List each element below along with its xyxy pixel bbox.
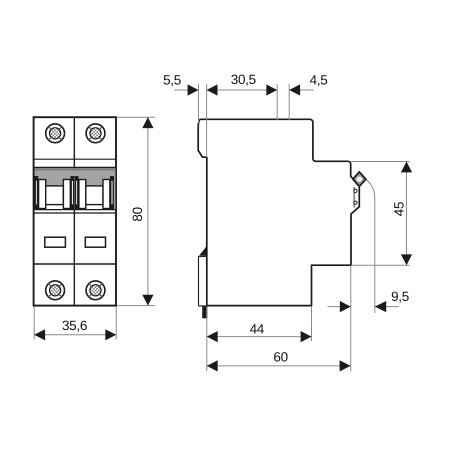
DIN rail clip foot — [202, 307, 207, 319]
dimension 35,6 extension left — [33, 307, 35, 340]
pole2 narrow bar right — [111, 177, 113, 209]
screw terminal bottom-left — [46, 281, 65, 300]
svg-text:45: 45 — [391, 202, 406, 216]
pole1 wide bar left — [39, 180, 46, 209]
narrow bar end caps — [35, 176, 114, 210]
pole1 recess lower white zone — [39, 204, 70, 210]
dimension 44/60 extension left — [206, 306, 208, 371]
toggle recess shadow top — [35, 168, 116, 170]
dimension 60 extension right (also 9,5 left) — [350, 265, 352, 371]
dimension 80 extension bottom — [117, 305, 155, 307]
terminal screw boss (rotated square) — [353, 172, 366, 187]
pole2 wide bar right — [103, 180, 110, 209]
dimension 45 extension bottom — [352, 264, 410, 266]
dimension 9,5 right leader and arrow — [375, 306, 399, 308]
lower section line — [35, 263, 116, 265]
dimension 44 line with arrows — [207, 336, 312, 338]
dimension 9,5 left leader and arrow — [328, 306, 342, 308]
label window pole1 — [45, 237, 66, 247]
latch rivet hole lower — [354, 201, 357, 204]
dimension 30,5 extension line left — [206, 84, 208, 157]
dimension 4,5 leader and arrow — [289, 89, 314, 91]
pole1 narrow bar left — [35, 177, 37, 209]
pole 1 toggle slot bars — [35, 177, 113, 209]
dimension 80 line with arrows — [147, 117, 149, 305]
screw terminal bottom-right — [86, 281, 105, 300]
latch rivet hole upper — [354, 189, 357, 192]
svg-text:44: 44 — [250, 322, 265, 337]
dimension 4,5 extension line right — [288, 84, 290, 121]
dimension 5,5 leader and arrow — [174, 89, 190, 91]
pole divider line — [73, 117, 75, 305]
pole2 toggle handle face — [86, 186, 103, 205]
pole2 narrow bar left — [76, 177, 78, 209]
svg-text:9,5: 9,5 — [391, 289, 409, 304]
dimension 30,5 extension line right — [276, 84, 278, 121]
side view body outline — [198, 119, 359, 305]
screw boss hole — [357, 177, 362, 182]
dimension 44 extension right — [311, 306, 313, 341]
screw terminal top-left — [46, 124, 65, 143]
swing arc of front face — [361, 177, 375, 313]
screw terminal top-right — [86, 124, 105, 143]
svg-text:30,5: 30,5 — [231, 72, 256, 87]
dimension 80 extension top — [117, 116, 155, 118]
pole2 wide bar left — [79, 180, 86, 209]
dimension 45 extension top — [351, 161, 410, 163]
svg-text:80: 80 — [130, 207, 145, 221]
label window pole2 — [85, 237, 105, 247]
toggle band bottom line 2 — [35, 212, 116, 214]
dimension 45 line with arrows — [406, 162, 408, 266]
dimension 5,5 extension line A — [198, 84, 200, 123]
svg-text:5,5: 5,5 — [163, 72, 181, 87]
front view body outline — [34, 117, 116, 305]
dimension 30,5 line with arrows — [207, 89, 278, 91]
toggle recess gray band — [35, 168, 116, 209]
toggle band bottom line 1 — [35, 209, 116, 211]
pole1 narrow bar right — [71, 177, 73, 209]
pole1 wide bar right — [63, 180, 70, 209]
toggle band top line — [35, 167, 116, 169]
latch plate inner edge — [353, 187, 355, 208]
DIN rail clip body — [199, 256, 207, 306]
svg-text:4,5: 4,5 — [310, 72, 328, 87]
svg-text:35,6: 35,6 — [62, 318, 87, 333]
DIN rail clip wedge — [199, 244, 207, 256]
upper section line — [35, 158, 116, 160]
svg-text:60: 60 — [273, 349, 287, 364]
dimension 60 line with arrows — [207, 365, 351, 367]
dimension 35,6 line with arrows — [34, 334, 116, 336]
pole1 toggle handle face — [46, 186, 64, 205]
dimension 35,6 extension right — [115, 307, 117, 340]
pole2 recess lower white zone — [79, 204, 109, 210]
